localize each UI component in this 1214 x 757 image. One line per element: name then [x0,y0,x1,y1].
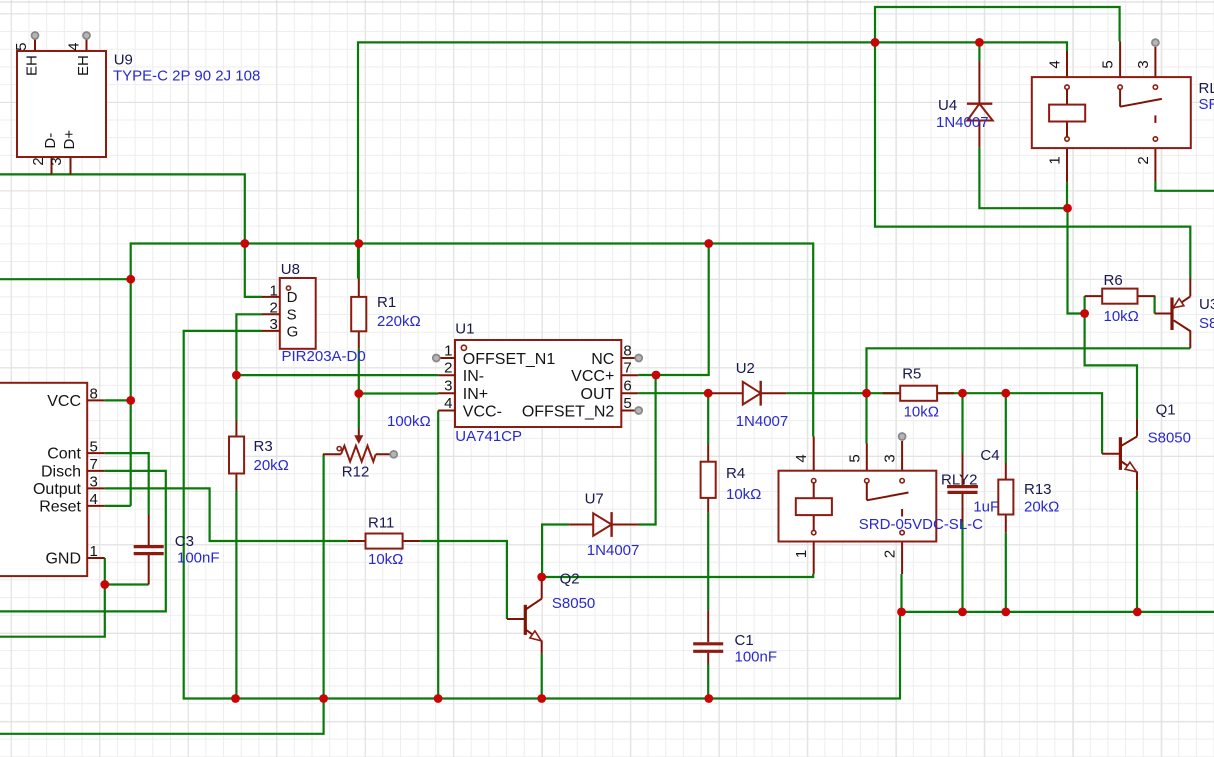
wire R4 bottom to C1 top [707,512,709,610]
wire 555 Reset pin4 [105,505,131,507]
wire U8 pin2 / R3 / U1 IN- vertical [236,314,262,420]
wire U4 top stub to top rail [978,42,980,61]
junction [975,38,984,47]
wire U1 IN- (pin2) [236,374,438,376]
junction [319,694,328,703]
svg-text:7: 7 [90,456,98,473]
svg-text:PIR203A-D0: PIR203A-D0 [282,348,366,365]
svg-text:R5: R5 [902,366,921,383]
wire relay RLY1 pin1 down to node [1066,182,1068,208]
junction [1001,608,1010,617]
junction [232,371,241,380]
resistor R13 20k [998,463,1059,533]
junction [704,389,713,398]
wire R13 top stub [1005,393,1007,463]
svg-text:R3: R3 [254,438,273,455]
wire C4 bottom to rail [961,522,963,612]
svg-text:SRD-05VDC-SL-C: SRD-05VDC-SL-C [1199,96,1214,113]
svg-text:TYPE-C 2P 90 2J 108: TYPE-C 2P 90 2J 108 [113,68,260,85]
resistor R6 10k [1085,272,1156,325]
svg-text:Q2: Q2 [560,571,580,588]
wire R1 bottom to R12 wiper with IN+ tap [358,349,360,429]
svg-text:2: 2 [1135,156,1152,164]
transistor U8 PIR203A-D0 [262,261,366,365]
wire U1 VCC- (pin4) to ground rail [437,411,439,699]
svg-text:2: 2 [30,157,47,165]
svg-text:1: 1 [90,543,98,560]
svg-text:EH: EH [75,55,92,76]
svg-text:C3: C3 [175,533,194,550]
svg-text:U2: U2 [736,360,755,377]
svg-text:3: 3 [882,454,899,462]
svg-text:GND: GND [45,551,81,568]
wire R11 right to Q2 base [420,541,507,619]
wire 555 Disch pin7 to left edge [0,471,166,612]
svg-text:Cont: Cont [47,446,81,463]
transistor U3 S8550 (right edge, clipped) [1155,278,1214,348]
wire left edge to VCC vertical [0,278,131,280]
wire R4 top stub [707,393,709,444]
svg-text:OUT: OUT [581,386,615,403]
svg-text:S: S [287,307,297,324]
svg-text:R1: R1 [377,294,396,311]
capacitor C4 1uF [947,447,1000,522]
wire U1 OUT pin6 to U2 anode node [638,392,708,394]
junction [537,694,546,703]
junction [231,694,240,703]
svg-text:4: 4 [793,454,810,462]
svg-text:20kΩ: 20kΩ [1024,499,1059,516]
wire VCC rail (y=243.5) with riser to relay RLY1 pin4 and Reset drop [131,244,814,506]
wire R13 bottom to rail [1005,533,1007,612]
svg-text:C1: C1 [735,632,754,649]
svg-text:10kΩ: 10kΩ [1104,308,1139,325]
junction [354,389,363,398]
svg-text:1: 1 [1047,156,1064,164]
svg-text:4: 4 [444,395,452,412]
svg-text:2: 2 [882,550,899,558]
svg-text:220kΩ: 220kΩ [377,313,421,330]
svg-text:RLY1: RLY1 [1199,80,1214,97]
canvas top border line [0,1,1214,3]
svg-text:100nF: 100nF [177,550,220,567]
junction [1133,608,1142,617]
svg-text:R6: R6 [1104,272,1123,289]
wire relay RLY1 pin2 out right edge [1155,182,1214,191]
diode U4 1N4007 [936,61,993,147]
potentiometer R12 100k [323,413,431,481]
junction [862,389,871,398]
svg-text:SRD-05VDC-SL-C: SRD-05VDC-SL-C [859,516,983,533]
resistor R1 220k [351,279,421,349]
svg-text:Output: Output [33,481,82,498]
junction [704,239,713,248]
wire R6 right to U3 base [1153,296,1155,313]
wire U1 IN+ (pin3) [359,392,438,394]
svg-text:EH: EH [24,55,41,76]
svg-text:10kΩ: 10kΩ [904,404,939,421]
svg-text:3: 3 [269,316,277,333]
svg-text:3: 3 [1135,60,1152,68]
svg-text:R12: R12 [342,464,370,481]
wire R6 left junction net to Q1 collector [1085,296,1137,419]
svg-text:3: 3 [444,378,452,395]
svg-text:U3: U3 [1199,296,1214,313]
junction [354,239,363,248]
svg-text:R11: R11 [368,515,394,532]
svg-text:1uF: 1uF [973,499,999,516]
svg-text:U8: U8 [281,261,300,278]
svg-text:VCC-: VCC- [463,403,502,420]
wire U9 pins 2,3 to U8 pin1 [0,174,262,297]
svg-text:20kΩ: 20kΩ [254,457,289,474]
junction [871,38,880,47]
svg-text:1N4007: 1N4007 [936,114,989,131]
svg-text:Disch: Disch [41,463,81,480]
junction [1063,204,1072,213]
wire from top rail down to U3 emitter [875,42,1190,278]
svg-text:4: 4 [90,491,98,508]
wire U7 cathode up to VCC+ node [639,375,656,525]
wire C4 top stub [961,393,963,453]
wire U8 pin3 to ground rail and right rail to edge [184,331,1214,699]
svg-text:Reset: Reset [39,498,81,515]
junction [1001,389,1010,398]
connector U9 TYPE-C [13,32,260,174]
svg-text:S8050: S8050 [552,595,595,612]
wire C3 bottom to GND net [105,583,149,585]
capacitor C3 100nF [134,515,220,585]
svg-text:Q1: Q1 [1156,402,1176,419]
svg-text:S8550: S8550 [1199,315,1214,332]
svg-text:5: 5 [90,438,98,455]
svg-text:VCC+: VCC+ [571,368,614,385]
diode U2 1N4007 [712,360,788,430]
svg-text:U4: U4 [938,97,957,114]
diode U7 1N4007 [569,491,639,560]
wire 555 Output pin3 to R11 left [105,488,348,541]
svg-text:3: 3 [90,474,98,491]
svg-text:5: 5 [623,395,631,412]
svg-text:1: 1 [444,342,452,359]
wire Q2 collector row to relay RLY2 pin1 [542,574,814,577]
wire U7 anode branch from Q2 collector node [542,525,569,578]
svg-text:R13: R13 [1024,481,1052,498]
transistor Q2 S8050 [507,571,595,654]
wire top-right loop over relay RLY1 pin5 [875,7,1120,42]
wire Q1 emitter to rail [1136,490,1138,612]
svg-text:4: 4 [1047,60,1064,68]
svg-text:S8050: S8050 [1148,430,1191,447]
svg-text:4: 4 [66,43,83,51]
svg-text:1: 1 [793,550,810,558]
wire U3 collector to relay RLY2 pin5 node [867,348,1191,393]
wire 555 Cont pin5 to C3 top [105,453,149,514]
wire 555 VCC pin8 to vertical [105,399,131,401]
wire R3 bottom to ground rail [235,491,237,699]
svg-text:OFFSET_N1: OFFSET_N1 [463,351,556,368]
wire Q2 emitter to ground rail [541,654,543,699]
wire relay RLY2 pin5 green stub [865,393,867,443]
IC 555 timer (left, partially off-canvas) [0,383,105,576]
resistor R4 10k [701,445,762,513]
svg-text:NC: NC [591,351,614,368]
wire node down and right to R6 junction [1068,208,1085,313]
junction [434,694,443,703]
capacitor C1 100nF [693,610,777,665]
svg-text:VCC: VCC [47,393,81,410]
svg-text:UA741CP: UA741CP [455,428,522,445]
resistor R11 10k [348,515,421,569]
svg-text:6: 6 [623,378,631,395]
junction [126,396,135,405]
wire top net from R1 riser to relay RLY1 pin4 [358,42,1067,278]
svg-text:C4: C4 [980,447,999,464]
wire Disch net bottom to R12 left [0,454,324,734]
wire U4 bottom to node (1067.5,208.2) [979,147,1067,208]
svg-text:U7: U7 [585,491,604,508]
svg-text:1N4007: 1N4007 [587,542,640,559]
svg-text:10kΩ: 10kΩ [726,486,761,503]
junction [126,275,135,284]
wire C1 bottom to ground rail [707,665,709,699]
svg-text:100nF: 100nF [735,649,778,666]
svg-text:5: 5 [13,43,30,51]
resistor R3 20k [229,421,289,491]
junction [1080,309,1089,318]
wire relay RLY2 pin2 to bottom right rail [900,574,902,612]
op-amp U1 UA741CP [433,321,642,446]
svg-text:IN+: IN+ [463,386,488,403]
junction [704,694,713,703]
junction [652,371,661,380]
relay RLY2 SRD-05VDC-SL-C [779,433,984,574]
svg-text:G: G [287,323,299,340]
svg-text:8: 8 [90,386,98,403]
junction [240,239,249,248]
svg-text:8: 8 [623,342,631,359]
svg-text:7: 7 [623,360,631,377]
wire U1 VCC+ pin7 to VCC rail riser [638,244,709,376]
svg-text:OFFSET_N2: OFFSET_N2 [522,403,615,420]
junction [100,580,109,589]
svg-text:1: 1 [269,283,277,300]
svg-text:5: 5 [1100,60,1117,68]
svg-text:R4: R4 [726,465,745,482]
svg-text:10kΩ: 10kΩ [368,551,403,568]
svg-text:IN-: IN- [463,368,484,385]
transistor Q1 S8050 [1102,402,1191,491]
svg-text:5: 5 [846,454,863,462]
svg-text:1N4007: 1N4007 [736,413,789,430]
relay RLY1 SRD-05VDC-SL-C (top right, clipped) [1032,39,1214,182]
junction [958,608,967,617]
junction [958,389,967,398]
svg-text:D-: D- [42,133,59,149]
svg-text:2: 2 [269,300,277,317]
junction [897,608,906,617]
svg-text:D+: D+ [61,130,78,150]
wire U2 cathode to R5 to Q1 base [786,393,1102,454]
svg-text:U1: U1 [455,321,474,338]
junction [537,573,546,582]
svg-text:100kΩ: 100kΩ [387,413,431,430]
wire 555 GND pin1 to left edge [0,558,105,637]
resistor R5 10k [883,366,954,421]
wire R1 top to VCC rail [358,244,360,279]
svg-text:D: D [287,289,298,306]
svg-text:3: 3 [48,157,65,165]
svg-text:U9: U9 [114,52,133,69]
svg-text:2: 2 [444,360,452,377]
